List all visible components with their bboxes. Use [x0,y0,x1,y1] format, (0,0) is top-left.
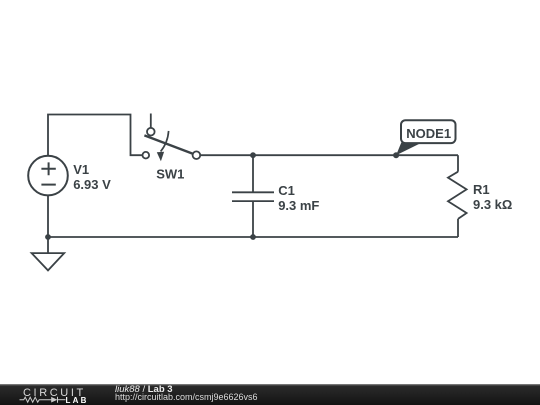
resistor R1 [448,172,467,219]
node NODE1 balloon [401,120,456,143]
footer author line [115,385,173,395]
svg-text:6.93 V: 6.93 V [73,177,111,192]
capacitor C1 [232,155,274,237]
node NODE1 flag tail [396,143,422,156]
svg-text:NODE1: NODE1 [406,126,451,141]
ground [32,237,65,270]
voltage source V1 [28,156,68,196]
wire bottom rail [48,236,458,238]
svg-text:9.3 mF: 9.3 mF [278,198,319,213]
node junction V1-ground [45,234,51,240]
svg-text:9.3 kΩ: 9.3 kΩ [473,197,512,212]
switch SW1 [143,114,201,162]
label C1 value [278,183,319,213]
label V1 value [73,162,111,192]
wire switch to right corner (top rail) [200,154,458,156]
wire top-left from V1 to switch [48,115,142,157]
svg-text:V1: V1 [73,162,89,177]
wire V1 bottom [47,195,49,237]
wire R1 top stub [457,155,459,172]
node junction C1 bottom [250,234,256,240]
svg-text:LAB: LAB [66,396,89,405]
svg-text:R1: R1 [473,182,490,197]
wire R1 bottom stub [457,219,459,237]
node NODE1 junction dot [393,152,399,158]
CircuitLab logo [0,384,110,405]
label R1 value [473,182,512,212]
svg-text:C1: C1 [278,183,295,198]
svg-text:SW1: SW1 [156,167,184,182]
footer url line [115,393,258,402]
node junction C1 top [250,152,256,158]
